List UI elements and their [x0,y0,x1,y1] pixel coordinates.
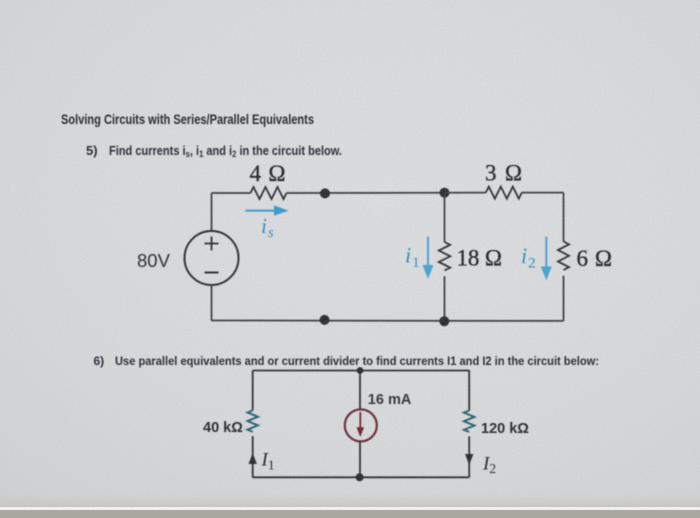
resistor R5 40-kohm [248,410,258,431]
node dot bottom B [439,316,449,326]
resistor R3 18-ohm [439,242,450,271]
middle branch wire upper [359,371,361,410]
wire top-left segment [212,192,251,194]
current arrow I1 (up) [249,453,257,464]
wire top middle segment [287,192,445,194]
node dot bottom middle [356,473,364,481]
resistor R1 4-ohm [251,187,287,199]
voltage source V1 (80V) [185,193,239,321]
current arrow I2 (down) [465,454,473,465]
current arrow i2 [541,237,552,281]
right branch wire upper [468,371,470,411]
node dot bottom A [320,315,330,325]
left branch wire upper [252,371,254,411]
resistor R4 6-ohm [558,242,569,271]
left branch wire lower [252,436,254,477]
wire top-right lead [522,192,564,194]
resistor R6 120-kohm [464,411,474,432]
wire top 3ohm left lead [445,192,486,194]
node dot top B [440,188,450,198]
bottom wire [212,320,564,322]
node dot top A [320,188,330,198]
middle branch wire upper [444,193,446,242]
node dot top middle [357,367,364,374]
right branch wire lower [563,276,565,321]
current source IS1 (16 mA) [345,409,377,441]
bottom wire [253,476,470,478]
middle branch wire lower [359,442,361,478]
top wire [253,370,470,372]
current arrow i_s [246,205,289,215]
current arrow i1 [423,237,434,279]
right branch wire upper [563,193,565,242]
resistor R2 3-ohm [486,187,522,199]
right branch wire lower [468,436,470,477]
middle branch wire lower [444,276,446,321]
